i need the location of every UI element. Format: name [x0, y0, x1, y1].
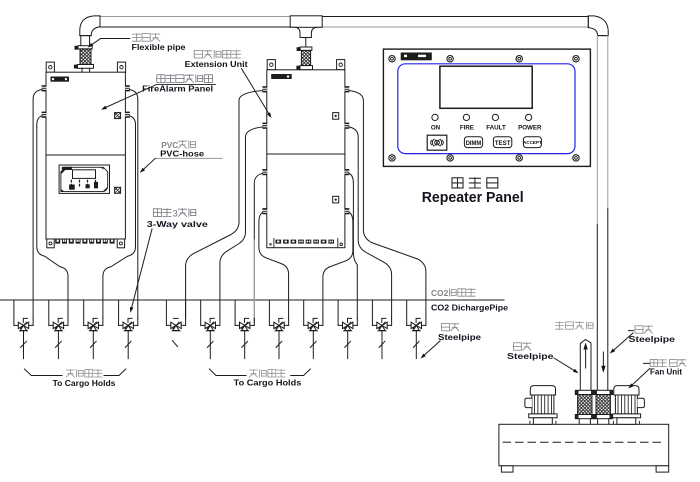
3-way valve V7	[235, 300, 254, 359]
pipe elbow top-right	[588, 16, 608, 36]
conduit tube from FAP right stub 1 (outer) to valve V4 drop	[130, 90, 138, 319]
conduit tube from EU right stub 4 jogging under panel to valve V9 drop	[323, 212, 353, 318]
brace under cargo-hold valve group A	[25, 369, 126, 376]
svg-text:CO2: CO2	[431, 288, 449, 298]
svg-text:Fan Unit: Fan Unit	[650, 366, 682, 376]
svg-text:ACCEPT: ACCEPT	[523, 140, 542, 145]
conduit tube from FAP left stub 1 (outer) to valve V1 drop	[33, 90, 42, 319]
svg-text:FireAlarm Panel: FireAlarm Panel	[142, 83, 213, 93]
pipe tee fitting above Extension Unit	[290, 16, 322, 47]
svg-text:ON: ON	[431, 125, 441, 132]
svg-text:Steelpipe: Steelpipe	[629, 334, 676, 344]
conduit tube from FAP right stub 2 (inner) jogging to valve V3 drop	[103, 116, 136, 318]
3-way valve V1	[14, 300, 33, 359]
pipe: CO2 discharge main horizontal pipe	[0, 299, 504, 301]
label: discharge overboard	[556, 322, 594, 329]
3-way valve V12	[407, 300, 426, 359]
3-way valve V9	[304, 300, 323, 359]
svg-text:Extension Unit: Extension Unit	[185, 59, 248, 69]
pipe: right vertical duct down to fan unit	[597, 36, 608, 391]
3-way valve V3	[84, 300, 103, 359]
conduit tube from FAP left stub 2 (inner) jogging to valve V2 drop	[37, 116, 68, 318]
extension unit cabinet	[262, 60, 349, 248]
3-way valve V4	[119, 300, 138, 359]
3-way valve V6	[201, 300, 220, 359]
label: to cargo holds (group A)	[53, 370, 116, 388]
label: fire alarm panel	[101, 75, 215, 110]
discharge overboard pipe (short, above left coupling)	[580, 340, 591, 391]
svg-text:DIMM: DIMM	[466, 140, 482, 147]
svg-text:TEST: TEST	[495, 140, 512, 147]
label: steelpipe (left discharge pipe)	[507, 343, 579, 373]
svg-text:Steelpipe: Steelpipe	[438, 332, 481, 342]
3-way valve V11	[372, 300, 391, 359]
svg-text:PVC-hose: PVC-hose	[160, 148, 204, 158]
3-way valve V5	[166, 300, 185, 347]
label: to cargo holds (group B)	[234, 370, 302, 388]
conduit tube from EU left stub 4 jogging under panel to valve V8 drop	[259, 212, 289, 318]
label: steelpipe (valve drop)	[421, 323, 482, 358]
flexible pipe coupling above Fire Alarm Panel	[74, 46, 93, 72]
3-way valve V10	[338, 300, 357, 359]
svg-text:Repeater Panel: Repeater Panel	[422, 190, 524, 206]
svg-text:3-Way valve: 3-Way valve	[147, 219, 208, 229]
pipe elbow top-left	[80, 16, 100, 46]
repeater panel	[383, 49, 590, 166]
svg-text:FIRE: FIRE	[460, 125, 474, 132]
3-way valve V2	[49, 300, 68, 359]
conduit tube from EU right stub 1 to valve V12 drop	[349, 91, 426, 319]
pipe: top horizontal duct right segment	[322, 17, 588, 28]
svg-text:To Cargo Holds: To Cargo Holds	[234, 377, 302, 387]
wire: lower right-drop segments joining conduit tubes to valves	[33, 318, 426, 325]
svg-text:Steelpipe: Steelpipe	[507, 351, 554, 361]
flow arrow (down) inside right vertical duct	[601, 352, 605, 373]
3-way valve V8	[269, 300, 288, 359]
conduit tube from EU right stub 3 to valve V10 drop	[349, 173, 357, 318]
label: flexible pipe	[88, 34, 186, 52]
label: extension unit	[185, 50, 272, 118]
conduit tube from EU left stub 1 to valve V5 drop	[186, 91, 263, 319]
svg-text:To Cargo Holds: To Cargo Holds	[53, 378, 116, 388]
conduit tube from EU right stub 2 to valve V11 drop	[349, 127, 392, 318]
flexible pipe coupling above Extension Unit	[297, 47, 313, 70]
svg-text:POWER: POWER	[518, 125, 542, 132]
fire alarm panel cabinet	[42, 62, 130, 248]
conduit tube (gray below) from EU left stub 3 straight down to valve V7 drop	[254, 173, 262, 240]
fan unit left motor	[525, 386, 557, 425]
fan unit right pipe coupling	[594, 390, 613, 424]
label: CO2 discharge pipe	[431, 288, 508, 312]
fan unit left pipe coupling	[575, 390, 594, 424]
svg-text:Flexible pipe: Flexible pipe	[132, 42, 186, 52]
svg-text:CO2 DichargePipe: CO2 DichargePipe	[431, 302, 508, 312]
label: PVC-hose	[140, 141, 222, 173]
svg-text:FAULT: FAULT	[486, 125, 506, 132]
pipe: top horizontal duct left segment	[100, 17, 290, 28]
svg-text:3: 3	[173, 208, 178, 218]
label: steelpipe (right duct)	[610, 326, 675, 354]
label: 3-way valve	[130, 208, 208, 312]
fan unit right motor	[612, 386, 644, 425]
brace under cargo-hold valve group B	[209, 369, 310, 376]
fan unit base	[499, 424, 669, 472]
conduit tube from EU left stub 2 to valve V6 drop	[220, 127, 263, 318]
label: fan unit	[628, 359, 686, 388]
label: repeater panel	[422, 178, 524, 206]
